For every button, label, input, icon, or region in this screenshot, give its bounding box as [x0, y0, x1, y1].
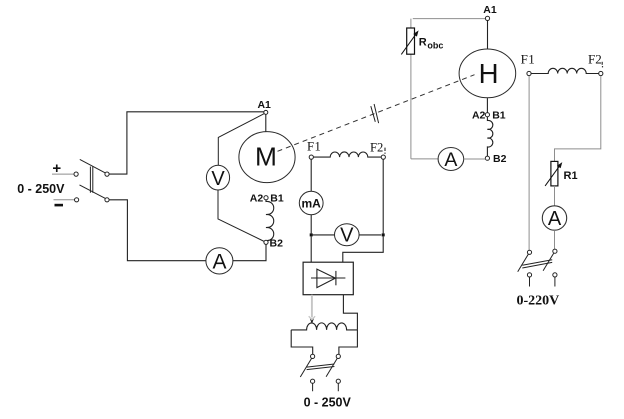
svg-text:0-220V: 0-220V: [517, 294, 560, 309]
svg-text:B2: B2: [493, 153, 507, 165]
svg-text:B2: B2: [270, 237, 284, 249]
svg-text:A1: A1: [257, 99, 271, 111]
svg-text:+: +: [52, 160, 61, 177]
svg-text:R: R: [419, 36, 427, 48]
svg-text:A1: A1: [483, 4, 497, 16]
svg-text:A: A: [548, 208, 562, 230]
svg-text:A2: A2: [250, 193, 264, 205]
svg-text:mA: mA: [302, 197, 322, 211]
svg-text:R1: R1: [564, 170, 578, 182]
svg-text:0 - 250V: 0 - 250V: [17, 182, 65, 196]
svg-text:F1: F1: [307, 139, 321, 153]
svg-text:A: A: [212, 250, 226, 273]
svg-text:obc: obc: [427, 41, 443, 51]
svg-text:V: V: [340, 225, 354, 247]
svg-text:A: A: [444, 149, 457, 171]
svg-text:M: M: [255, 142, 277, 172]
svg-text:B1: B1: [270, 193, 284, 205]
svg-text:F1: F1: [521, 51, 536, 66]
svg-text:F2: F2: [588, 51, 602, 66]
svg-text:0 - 250V: 0 - 250V: [304, 396, 352, 410]
svg-text:A2: A2: [472, 110, 486, 122]
svg-text:B1: B1: [492, 110, 506, 122]
svg-text:V: V: [211, 168, 225, 190]
svg-text:H: H: [479, 58, 499, 89]
svg-text:F2: F2: [370, 141, 383, 155]
